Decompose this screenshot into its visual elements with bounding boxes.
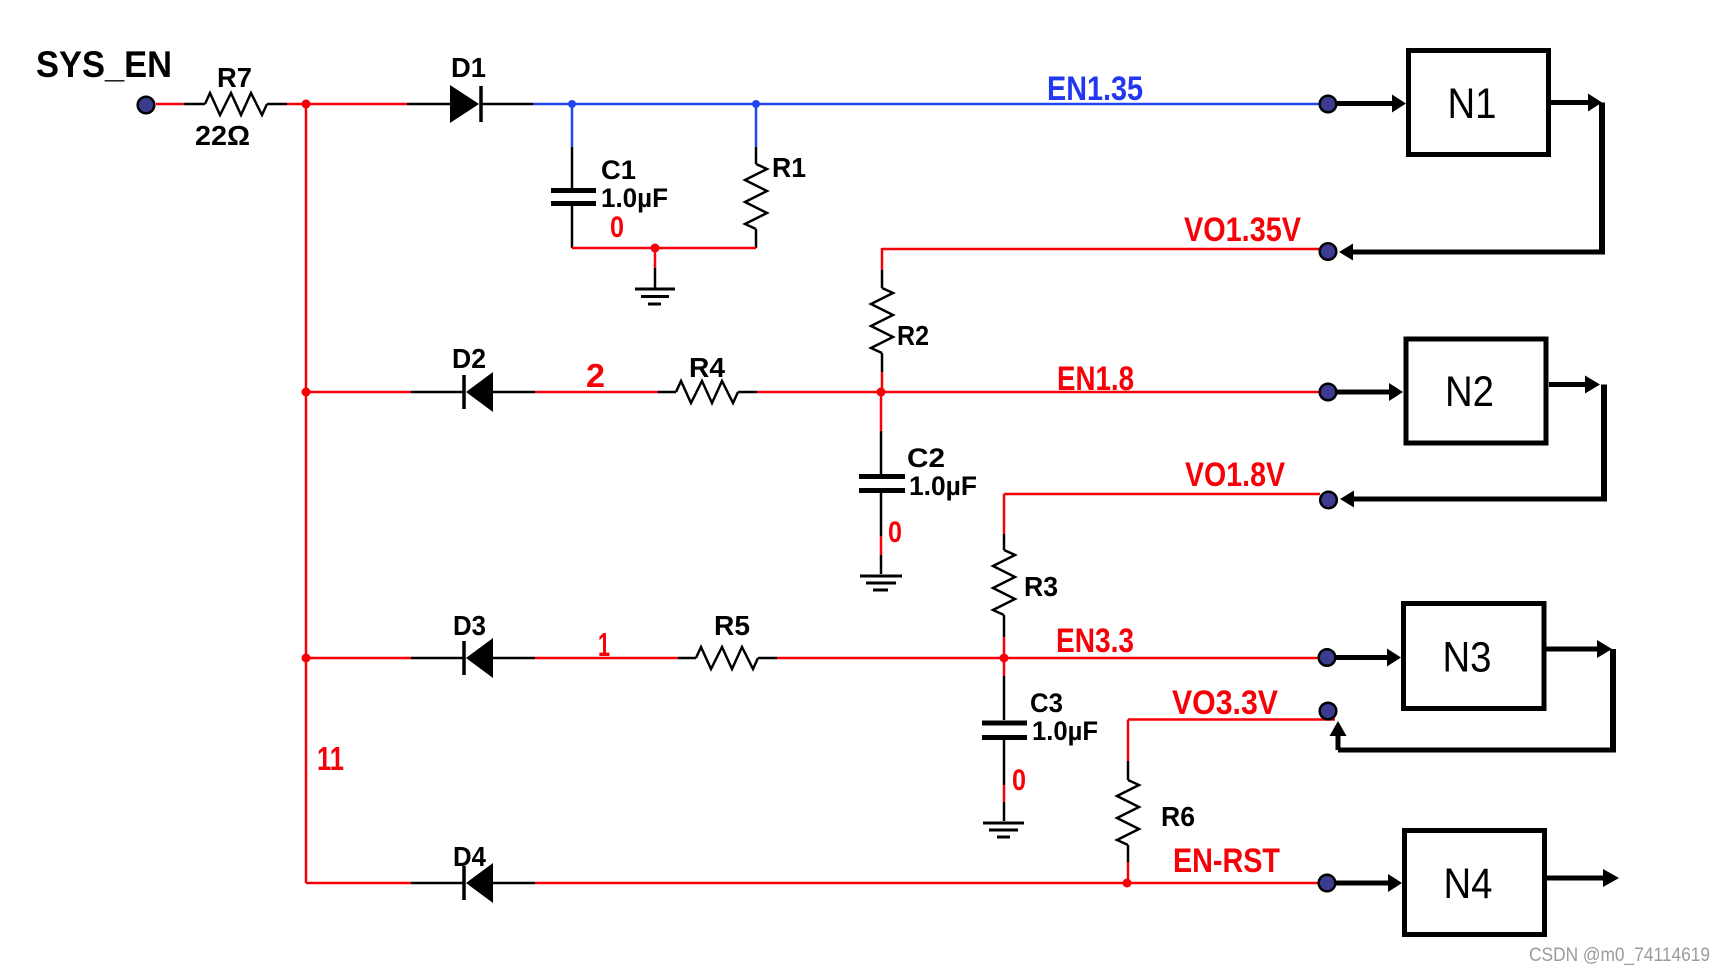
wire N1 output arrow (1551, 94, 1602, 112)
junction bus row2 (302, 388, 311, 397)
wire R3 bottom lead (black then red) (1003, 615, 1006, 637)
junction bus top (302, 100, 311, 109)
svg-text:0: 0 (888, 516, 902, 549)
wire EN-RST bus to D4 (red) (306, 882, 411, 885)
wire C1 top lead (blue then black) (571, 104, 574, 147)
wire EN1.8 bus to D2 (red) (306, 391, 411, 394)
wire EN-RST net (black then red) (493, 882, 535, 885)
resistor R2 (871, 288, 929, 353)
wire N2 feedback to VO1.8V (1340, 385, 1607, 508)
svg-text:22Ω: 22Ω (195, 120, 250, 151)
wire R4 left lead (black) (658, 391, 676, 394)
wire C2 bottom lead (black) (880, 493, 883, 536)
diode D4 (453, 841, 493, 903)
junction R2/C2/EN1.8 (877, 388, 886, 397)
wire C1/R1 ground net (red) (572, 247, 756, 250)
svg-text:R5: R5 (714, 610, 750, 641)
wire R1 top lead (blue then black) (755, 104, 758, 147)
wire D1 cathode lead (black) (482, 103, 533, 106)
svg-text:11: 11 (317, 740, 344, 777)
svg-text:D3: D3 (453, 610, 486, 641)
wire R7 left lead (black) (184, 103, 205, 106)
capacitor C3 (982, 688, 1098, 746)
svg-text:EN1.35: EN1.35 (1047, 70, 1143, 108)
svg-text:0: 0 (1012, 764, 1026, 797)
svg-text:R6: R6 (1161, 801, 1195, 832)
wire SYS_EN dot to R7 (red) (156, 103, 184, 106)
node EN1.35 port dot (1320, 96, 1337, 113)
ground (C3) (983, 823, 1024, 837)
wire R5 left lead (black) (678, 657, 696, 660)
svg-text:EN-RST: EN-RST (1173, 842, 1280, 880)
wire R6 top stub (red) (1127, 720, 1130, 762)
svg-text:D2: D2 (452, 343, 486, 374)
svg-text:N4: N4 (1444, 861, 1493, 908)
wire D3 to pin1 (black then red) (493, 657, 535, 660)
wire R4 right lead (black) (738, 391, 757, 394)
wire N4 input arrow (1336, 874, 1402, 892)
wire EN1.8 net (red) (757, 391, 1320, 394)
wire R3 top lead (black) (1003, 534, 1006, 550)
wire N3 input arrow (1336, 649, 1401, 667)
svg-text:SYS_EN: SYS_EN (36, 44, 172, 85)
wire vertical red bus (305, 104, 308, 883)
wire N3 feedback to VO3.3V (1330, 649, 1617, 750)
ground (C1/R1) (635, 289, 675, 304)
resistor R7 (195, 62, 267, 151)
block N1 (1409, 51, 1549, 155)
wire R3 top stub (red) (1003, 494, 1006, 534)
svg-text:N1: N1 (1448, 81, 1497, 128)
svg-text:1.0µF: 1.0µF (601, 183, 668, 213)
resistor R4 (676, 352, 738, 403)
block N3 (1404, 604, 1545, 709)
wire EN3.3 bus to D3 (red) (306, 657, 411, 660)
svg-text:D1: D1 (451, 52, 486, 83)
svg-text:0: 0 (610, 211, 624, 244)
junction R3/C3/EN3.3 (1000, 654, 1009, 663)
block N4 (1405, 831, 1545, 935)
svg-text:N3: N3 (1443, 635, 1492, 682)
wire N2 output arrow (1549, 376, 1600, 394)
svg-text:2: 2 (586, 357, 605, 394)
wire VO1.8V net (red) (1004, 493, 1320, 496)
wire C3 gnd stub (red then black) (1003, 785, 1006, 802)
wire R1 bottom lead (black) (755, 229, 758, 248)
wire D1 anode lead (black) (407, 103, 450, 106)
wire N3 output arrow (1547, 640, 1613, 658)
node EN3.3 port dot (1319, 649, 1336, 666)
wire N1 input arrow (1337, 95, 1406, 113)
wire gnd stub (red then black) (654, 248, 657, 268)
wire R2 top stub (red) (881, 248, 884, 270)
capacitor C1 (551, 155, 668, 213)
wire C3 bottom lead (black) (1003, 740, 1006, 785)
node EN1.8 port dot (1320, 384, 1337, 401)
wire D4 right lead (black) (411, 882, 464, 885)
wire D2 right lead (black) (411, 391, 464, 394)
wire R2 top lead (black) (881, 270, 884, 288)
resistor R5 (696, 610, 758, 669)
wire D2 to pin2 (black then red) (493, 391, 535, 394)
wire N4 output arrow (1547, 869, 1619, 887)
svg-text:C3: C3 (1030, 688, 1063, 718)
svg-text:VO1.8V: VO1.8V (1185, 456, 1285, 494)
svg-text:N2: N2 (1445, 369, 1494, 416)
svg-text:C2: C2 (907, 443, 945, 473)
junction blue at C1 (568, 100, 576, 108)
svg-text:EN1.8: EN1.8 (1057, 360, 1134, 398)
svg-text:D4: D4 (453, 841, 486, 872)
svg-text:EN3.3: EN3.3 (1056, 622, 1134, 660)
wire VO3.3V net (red) (1128, 718, 1335, 721)
wire C3 top lead (red then black) (1003, 658, 1006, 676)
svg-text:R7: R7 (217, 62, 252, 93)
node VO1.35V port dot (1320, 243, 1337, 260)
svg-text:C1: C1 (601, 155, 636, 185)
svg-text:VO3.3V: VO3.3V (1172, 684, 1278, 722)
resistor R3 (993, 550, 1058, 615)
junction gnd net (651, 244, 660, 253)
wire C1 bottom lead (black) (571, 206, 574, 248)
node SYS_EN terminal dot (138, 97, 155, 114)
wire R5 right lead (black) (758, 657, 777, 660)
wire EN3.3 net (red) (777, 657, 1320, 660)
wire R2 bottom lead (black then red) (881, 353, 884, 372)
svg-text:R2: R2 (897, 320, 929, 351)
wire C2 top lead (red then black) (880, 392, 883, 431)
wire R6 bottom lead (black then red) (1127, 845, 1130, 862)
node VO1.8V port dot (1320, 492, 1337, 509)
svg-text:1: 1 (598, 626, 610, 663)
junction R6/EN-RST (1123, 879, 1132, 888)
node EN-RST port dot (1319, 875, 1336, 892)
diode D2 (452, 343, 493, 412)
svg-text:R3: R3 (1024, 571, 1058, 602)
wire EN1.35 net (blue) (533, 103, 1320, 106)
wire VO1.35V net (red) (882, 248, 1320, 251)
diode D3 (453, 610, 493, 678)
capacitor C2 (859, 443, 977, 501)
wire R7 to D1 (red) (287, 103, 407, 106)
svg-text:VO1.35V: VO1.35V (1184, 211, 1301, 249)
wire D3 right lead (black) (411, 657, 464, 660)
wire C2 gnd stub (red then black) (880, 536, 883, 555)
svg-text:1.0µF: 1.0µF (1032, 716, 1098, 746)
resistor R1 (745, 152, 806, 229)
node VO3.3V port dot (1320, 703, 1337, 720)
wire N2 input arrow (1337, 383, 1403, 401)
svg-text:1.0µF: 1.0µF (909, 471, 977, 501)
junction blue at R1 (752, 100, 760, 108)
diode D1 (450, 52, 486, 123)
wire R7 right lead (black) (267, 103, 287, 106)
svg-text:R1: R1 (772, 152, 806, 183)
svg-text:R4: R4 (689, 352, 725, 383)
wire R6 top lead (black) (1127, 761, 1130, 780)
ground (C2) (860, 576, 902, 590)
svg-text:CSDN @m0_74114619: CSDN @m0_74114619 (1529, 945, 1710, 966)
resistor R6 (1117, 780, 1195, 845)
wire N1 feedback to VO1.35V (1339, 103, 1605, 261)
block N2 (1406, 339, 1546, 443)
junction bus row3 (302, 654, 311, 663)
